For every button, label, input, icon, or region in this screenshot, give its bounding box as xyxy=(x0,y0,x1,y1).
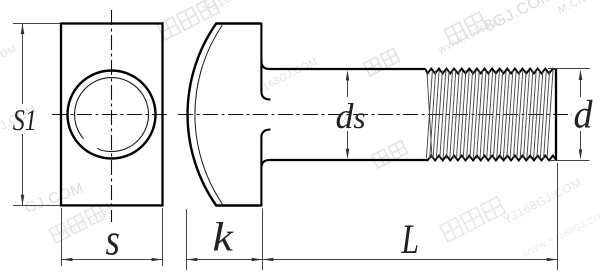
svg-text:J168GJ.COM: J168GJ.COM xyxy=(256,56,319,96)
svg-text:WWW.YJ168GJ.COM: WWW.YJ168GJ.COM xyxy=(520,208,600,260)
svg-text:S1: S1 xyxy=(13,104,37,137)
svg-text:OM: OM xyxy=(0,43,19,61)
svg-text:YJ168GJ.COM: YJ168GJ.COM xyxy=(501,175,584,227)
svg-text:d: d xyxy=(574,92,594,137)
svg-text:GJ.COM: GJ.COM xyxy=(23,180,86,217)
svg-text:k: k xyxy=(213,214,234,260)
svg-text:L: L xyxy=(401,217,419,263)
svg-text:ds: ds xyxy=(336,96,366,136)
svg-text:YJ168GJ.COM: YJ168GJ.COM xyxy=(201,0,284,17)
svg-text:s: s xyxy=(106,215,120,265)
svg-text:M.CN: M.CN xyxy=(556,0,588,17)
